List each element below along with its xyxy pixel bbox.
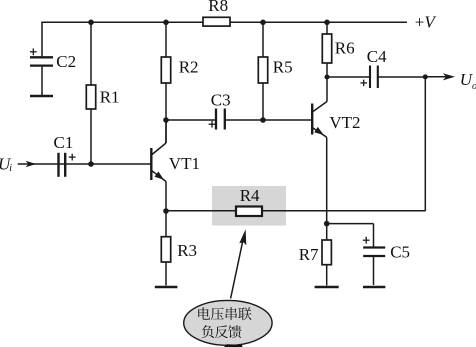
capacitor C5 plates [363,246,385,248]
plus sign of C2 [30,48,37,55]
transistor VT2 [312,77,327,137]
svg-text:C5: C5 [390,243,410,262]
wire R3 top [165,211,167,237]
input arrowhead [26,161,37,167]
resistor R3 body [161,237,170,262]
junction node dot 8 [325,75,330,80]
svg-text:C3: C3 [211,90,231,109]
wire C4 to output node [378,76,425,78]
junction node dot 9 [423,74,428,79]
resistor R4 body (feedback) [236,207,262,217]
junction node dot 2 [163,20,169,26]
capacitor C1 plates [57,153,59,177]
wire R7 bottom to ground [326,265,328,286]
bottom edge arrow fragment [224,344,243,347]
transistor VT1 [151,120,166,182]
svg-text:R3: R3 [177,241,197,260]
output arrow shaft [425,76,447,78]
wire C3 to VT2 base [226,119,311,121]
annotation text 电压串联 (line 1) [198,307,251,320]
capacitor C2 plates [30,56,53,58]
wire R3 bottom to ground [165,262,167,286]
svg-text:R2: R2 [179,57,199,76]
junction node dot 5 [88,161,94,167]
wire R1 to input node [90,109,92,164]
svg-text:C2: C2 [56,52,76,71]
wire R5 riser [262,22,264,57]
wire C5 branch down to top plate [373,224,375,247]
resistor R7 body [322,240,331,265]
svg-text:o: o [472,81,476,92]
svg-text:VT2: VT2 [329,113,360,132]
wire R5 bottom to base wire [262,83,264,120]
svg-text:C1: C1 [54,133,74,152]
plus sign of C1 [69,154,76,161]
wire R1 riser [90,22,92,85]
svg-text:R6: R6 [335,38,355,57]
wire R2 bottom to collector node [165,83,167,143]
plus sign of C4 [360,80,367,87]
annotation callout arrow to R4 [231,229,247,298]
svg-text:R5: R5 [273,57,293,76]
junction node dot 4 [324,20,330,26]
wire C5 bottom plate to ground [373,257,375,285]
ground under R3 [155,286,178,289]
resistor R1 body [86,85,95,109]
svg-text:C4: C4 [367,47,387,66]
ground under R7 [315,286,339,289]
wire R6 riser [326,22,328,34]
plus sign of C5 [363,237,370,244]
ground under C5 [363,286,385,289]
junction node dot 10 [163,208,169,214]
wire VT1 emitter down to node [165,182,167,212]
output arrowhead [443,73,455,80]
wire input line to VT1 base [18,163,151,165]
junction node dot 1 [88,20,94,26]
svg-text:R7: R7 [299,245,319,264]
svg-text:+V: +V [415,12,438,31]
wire R6 bottom to collector node [326,63,328,77]
resistor R5 body [258,57,267,83]
R4 highlight box [212,186,286,226]
junction node dot 6 [163,117,169,123]
annotation text 负反馈 (line 2) [202,325,242,338]
svg-text:i: i [9,163,12,174]
capacitor C3 plates [215,109,217,130]
svg-text:R1: R1 [100,88,120,107]
wire C2 bottom to ground [41,67,43,95]
capacitor C4 plates [369,66,371,89]
resistor R8 (horizontal, top rail) [203,17,230,26]
annotation ellipse (voltage series negative feedback) [184,300,272,345]
wire feedback riser up to output node [424,77,426,211]
wire top supply rail [42,22,407,57]
junction node dot 11 [324,221,330,227]
wire R2 riser [165,22,167,57]
wire feedback: emitter node through R4 to right riser [166,210,425,212]
svg-text:VT1: VT1 [169,154,200,173]
ground under C2 [30,95,53,98]
resistor R2 body [161,57,170,83]
svg-text:R4: R4 [240,186,260,205]
junction node dot 7 [260,117,266,123]
junction node dot 3 [260,20,266,26]
wire emitter node to C5 branch [327,223,374,225]
plus sign of C3 [209,121,216,128]
resistor R6 body [322,34,331,63]
svg-text:R8: R8 [208,0,228,15]
wire VT2 emitter down through crossing [326,137,328,240]
wire collector node to C4 [327,76,370,78]
wire node to C3 [166,119,215,121]
